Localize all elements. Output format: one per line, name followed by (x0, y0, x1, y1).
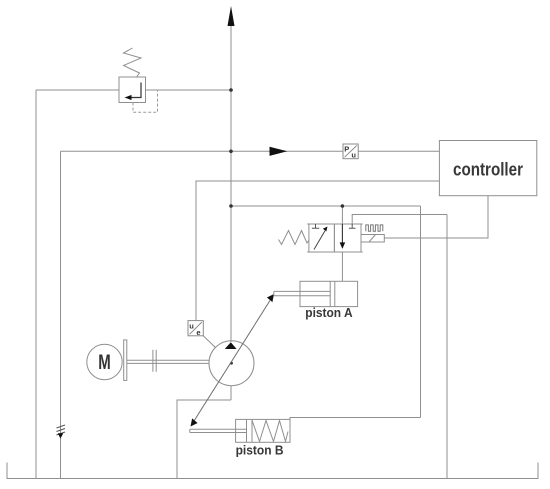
valve body rails (307, 224, 363, 252)
wire piston B supply H7 (290, 418, 421, 420)
shaft double line (127, 360, 209, 363)
valve solenoid (361, 235, 384, 243)
wire tank return V6 (446, 215, 448, 479)
svg-text:piston A: piston A (305, 305, 353, 320)
svg-text:piston B: piston B (236, 443, 284, 458)
valve V1 right position square (334, 224, 361, 252)
flow arrow on sensor line (270, 147, 288, 156)
svg-text:controller: controller (453, 159, 523, 180)
piston A cylinder (300, 281, 358, 306)
wire relief line H1 (36, 89, 231, 91)
swashplate linkage diagonal arrow (194, 301, 270, 421)
motor flange (124, 340, 127, 381)
wire left vertical V2 (60, 151, 62, 478)
wire sensor to pump (203, 336, 215, 348)
relief valve spring (124, 48, 142, 77)
valve right position through arrow (341, 224, 343, 243)
svg-text:e: e (196, 328, 200, 337)
wire control pressure H4 (231, 205, 421, 207)
PWM signal symbol (366, 225, 383, 231)
wire valve P port (341, 206, 343, 224)
relief valve pilot line (dashed) (133, 90, 158, 112)
piston A rod (274, 291, 330, 295)
piston B spring (252, 420, 288, 441)
valve right closed port T (349, 224, 356, 228)
drain symbol on V2 (57, 425, 66, 435)
wire feedback line H3 (196, 181, 439, 321)
pump outlet triangle (225, 342, 237, 349)
tank bottom line (7, 463, 538, 479)
wire controller output V7 (384, 196, 488, 238)
valve left position arrow (314, 231, 325, 250)
wire sensor line H2 (61, 150, 440, 152)
svg-text:u: u (189, 321, 194, 330)
valve left closed port T (312, 224, 319, 228)
pressure sensor PU box (343, 144, 358, 159)
piston A piston (330, 281, 335, 306)
svg-text:u: u (351, 151, 356, 160)
junction dot at valve feed (341, 204, 345, 208)
motor M circle (87, 344, 122, 379)
relief valve flow arrow (131, 83, 141, 98)
pump P1 circle (209, 341, 254, 386)
junction dot at control line (229, 204, 233, 208)
piston B piston (247, 419, 253, 442)
pump center dot (230, 362, 233, 365)
speed sensor u_e box (188, 321, 203, 336)
wire main pressure vertical V3 (230, 25, 232, 400)
wire valve A port to piston A (341, 252, 343, 281)
piston B cylinder (236, 419, 290, 442)
relief valve RV body (119, 77, 146, 103)
junction dot at relief line (229, 88, 233, 92)
svg-text:P: P (344, 145, 349, 154)
wire piston B supply V5 (420, 206, 422, 418)
wire left vertical V1 (35, 90, 37, 479)
coupling bars (153, 350, 156, 372)
svg-text:M: M (98, 351, 111, 374)
junction dot at sensor line (229, 150, 233, 154)
valve spring (279, 231, 309, 245)
controller box U1 (439, 141, 536, 196)
flow arrow top of main line (228, 6, 235, 26)
piston B rod (190, 429, 247, 432)
wire pump suction to tank (177, 400, 231, 479)
valve V1 left position square (309, 224, 335, 252)
wire valve T port H5 (352, 215, 447, 225)
